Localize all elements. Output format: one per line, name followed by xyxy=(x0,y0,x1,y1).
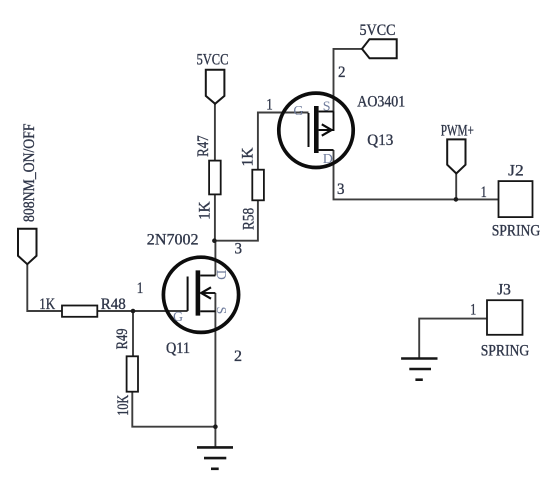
svg-text:SPRING: SPRING xyxy=(492,223,541,240)
svg-text:D: D xyxy=(213,270,228,280)
svg-text:1: 1 xyxy=(481,184,487,201)
svg-text:2N7002: 2N7002 xyxy=(147,231,199,248)
svg-text:1: 1 xyxy=(137,280,144,297)
svg-text:R48: R48 xyxy=(101,296,126,313)
svg-text:3: 3 xyxy=(235,241,243,258)
svg-text:PWM+: PWM+ xyxy=(441,123,474,140)
svg-text:Q13: Q13 xyxy=(367,132,393,149)
svg-text:R47: R47 xyxy=(195,135,212,157)
svg-text:G: G xyxy=(173,310,183,325)
svg-text:1: 1 xyxy=(266,96,273,113)
svg-text:R49: R49 xyxy=(114,329,131,350)
svg-text:SPRING: SPRING xyxy=(481,343,530,360)
svg-text:J3: J3 xyxy=(497,281,511,298)
svg-text:AO3401: AO3401 xyxy=(357,93,405,110)
svg-text:S: S xyxy=(213,307,228,315)
svg-text:1K: 1K xyxy=(239,147,256,167)
svg-text:1K: 1K xyxy=(196,201,213,220)
svg-text:2: 2 xyxy=(338,64,346,81)
svg-text:R58: R58 xyxy=(241,208,258,230)
svg-text:1K: 1K xyxy=(39,296,55,313)
svg-text:5VCC: 5VCC xyxy=(197,51,229,68)
svg-text:Q11: Q11 xyxy=(166,340,190,357)
svg-text:5VCC: 5VCC xyxy=(360,22,396,39)
svg-text:10K: 10K xyxy=(115,395,132,416)
svg-text:G: G xyxy=(293,104,303,119)
svg-text:808NM_ON/OFF: 808NM_ON/OFF xyxy=(21,123,38,222)
svg-text:1: 1 xyxy=(470,302,476,319)
svg-text:S: S xyxy=(323,99,331,114)
svg-text:3: 3 xyxy=(337,181,345,198)
svg-text:2: 2 xyxy=(234,348,242,365)
svg-text:D: D xyxy=(323,152,333,167)
svg-text:J2: J2 xyxy=(508,162,524,179)
